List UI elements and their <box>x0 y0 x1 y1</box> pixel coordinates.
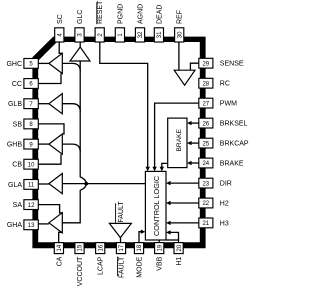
svg-text:GHB: GHB <box>7 142 23 149</box>
svg-text:DIR: DIR <box>220 181 232 188</box>
svg-text:BRKSEL: BRKSEL <box>220 121 248 128</box>
svg-text:VBB: VBB <box>157 256 164 270</box>
svg-text:25: 25 <box>202 141 209 147</box>
svg-text:32: 32 <box>138 31 144 38</box>
svg-text:21: 21 <box>202 221 209 227</box>
svg-text:30: 30 <box>177 31 183 38</box>
svg-text:RC: RC <box>220 81 230 88</box>
svg-text:DEAD: DEAD <box>156 5 163 24</box>
svg-text:CONTROL LOGIC: CONTROL LOGIC <box>152 176 161 236</box>
svg-text:24: 24 <box>202 161 209 167</box>
svg-text:PWM: PWM <box>220 101 237 108</box>
svg-text:CB: CB <box>12 162 22 169</box>
svg-text:23: 23 <box>202 181 209 187</box>
svg-text:H3: H3 <box>220 220 229 227</box>
svg-text:LCAP: LCAP <box>98 256 105 275</box>
svg-text:AGND: AGND <box>138 4 145 24</box>
svg-text:17: 17 <box>119 244 125 251</box>
svg-text:SA: SA <box>13 202 23 209</box>
svg-text:10: 10 <box>28 162 35 168</box>
svg-text:15: 15 <box>78 244 84 251</box>
svg-text:VCCOUT: VCCOUT <box>77 256 84 286</box>
svg-text:CA: CA <box>56 256 63 266</box>
svg-text:11: 11 <box>28 183 35 189</box>
svg-text:31: 31 <box>157 31 163 38</box>
svg-text:GHA: GHA <box>7 222 23 229</box>
svg-text:FAULT: FAULT <box>118 201 125 223</box>
svg-text:22: 22 <box>202 201 209 207</box>
svg-text:MODE: MODE <box>137 256 144 277</box>
svg-text:RESET: RESET <box>97 0 104 24</box>
svg-text:SC: SC <box>57 14 64 24</box>
svg-text:CC: CC <box>12 81 22 88</box>
svg-text:19: 19 <box>157 244 163 251</box>
svg-text:BRAKE: BRAKE <box>220 160 244 167</box>
svg-text:GLA: GLA <box>8 182 22 189</box>
svg-text:GLC: GLC <box>77 10 84 24</box>
svg-text:BRKCAP: BRKCAP <box>220 141 249 148</box>
svg-text:SENSE: SENSE <box>220 61 244 68</box>
svg-text:16: 16 <box>98 244 104 251</box>
svg-text:REF: REF <box>177 10 184 24</box>
svg-text:18: 18 <box>137 244 143 251</box>
svg-text:14: 14 <box>57 244 63 251</box>
svg-text:29: 29 <box>202 61 209 67</box>
svg-text:GHC: GHC <box>6 61 22 68</box>
svg-text:GLB: GLB <box>8 101 22 108</box>
svg-text:SB: SB <box>13 121 23 128</box>
svg-text:PGND: PGND <box>117 4 124 24</box>
svg-text:H1: H1 <box>176 257 183 266</box>
svg-text:13: 13 <box>28 223 35 229</box>
svg-text:12: 12 <box>28 203 35 209</box>
svg-text:H2: H2 <box>220 200 229 207</box>
svg-text:27: 27 <box>202 101 209 107</box>
svg-text:FAULT: FAULT <box>119 256 126 278</box>
svg-text:26: 26 <box>202 121 209 127</box>
svg-text:28: 28 <box>202 81 209 87</box>
svg-text:BRAKE: BRAKE <box>176 129 183 152</box>
svg-text:20: 20 <box>177 244 183 251</box>
